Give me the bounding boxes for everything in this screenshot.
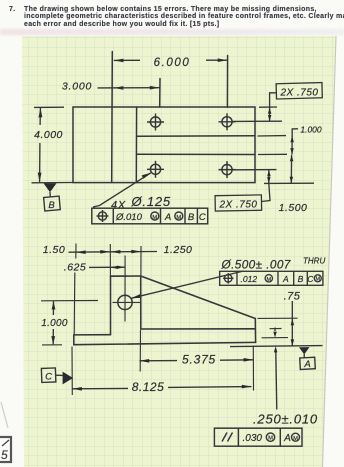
leader to hole label — [131, 271, 244, 298]
right end edge — [254, 319, 256, 343]
question text line 2 — [24, 13, 344, 20]
svg-text:B: B — [48, 200, 55, 211]
grade box bottom-left corner — [0, 402, 11, 462]
dimension 3.000 — [98, 86, 160, 90]
hole bottom-left — [147, 161, 164, 178]
hole (front view) — [118, 295, 132, 309]
svg-text:1.500: 1.500 — [279, 202, 308, 214]
extension line slope corner right — [258, 317, 298, 319]
extension line inner upper right — [258, 135, 287, 137]
dimension 1.50 — [43, 244, 110, 256]
step edge left foot — [74, 334, 111, 336]
inner vertical line 1 / extension line for 6.000 and 3.000 — [111, 52, 114, 183]
extension line hole row 2 right — [233, 169, 277, 171]
dimension .75 — [284, 291, 301, 347]
extension line mid right — [262, 337, 289, 339]
dimension 5.375 — [140, 353, 254, 367]
dimension 1.000 (right) — [290, 125, 322, 155]
svg-text:M: M — [152, 215, 157, 221]
svg-text:4.000: 4.000 — [34, 129, 63, 141]
svg-text:M: M — [316, 277, 321, 283]
dimension 4.000 — [32, 107, 73, 183]
svg-text:3.000: 3.000 — [62, 81, 92, 93]
dimension 6.000 — [114, 58, 228, 62]
svg-text:M: M — [176, 215, 181, 221]
left end edge — [73, 335, 75, 345]
hole top-left — [147, 114, 164, 131]
svg-text:1.000: 1.000 — [41, 318, 68, 329]
svg-text:1.250: 1.250 — [164, 244, 193, 256]
extension line bottom edge right (long) — [264, 182, 314, 184]
part outline rectangle (top view) — [73, 107, 255, 183]
inner horizontal line lower — [137, 153, 255, 155]
inner vertical line 2 — [135, 107, 137, 183]
extension line hole column 2 above part — [226, 56, 228, 108]
hole bottom-right — [219, 161, 236, 178]
question text line 1 — [9, 6, 15, 13]
dimension .625 — [64, 262, 125, 274]
wall right edge — [140, 276, 142, 329]
svg-text:THRU: THRU — [303, 257, 325, 266]
svg-text:1.50: 1.50 — [43, 244, 65, 256]
dimension 8.125 — [72, 380, 251, 394]
boxed dimension 2X .750 (bottom) — [215, 170, 271, 211]
datum B — [44, 183, 61, 211]
base top edge — [141, 328, 256, 330]
dimension 1.000 (left) — [41, 301, 68, 344]
bottom edge — [74, 342, 256, 344]
extension line for 1.000 top (left) — [41, 300, 98, 302]
feature control frame (top drawing) — [92, 208, 208, 224]
svg-text:5: 5 — [1, 448, 8, 462]
svg-text:2X .750: 2X .750 — [219, 200, 258, 211]
part outline (front view): wall top edge — [111, 275, 141, 277]
extension line hole row 1 right — [233, 120, 283, 122]
pink highlighter smear — [0, 29, 344, 35]
svg-text:B: B — [298, 274, 304, 284]
wall left edge — [110, 276, 112, 335]
datum C — [41, 368, 73, 384]
svg-text:C: C — [307, 274, 314, 284]
dimension .250 ± .010 arrows — [253, 328, 318, 427]
svg-text:A: A — [164, 212, 171, 223]
svg-text:.250±.010: .250±.010 — [253, 412, 318, 427]
svg-text:A: A — [303, 359, 310, 370]
extension line left end (below part, datum C) — [71, 347, 73, 396]
datum A — [299, 347, 315, 370]
svg-text:C: C — [45, 372, 52, 383]
leader 4X Ø.125 — [93, 173, 171, 212]
extension line right end (below part) — [252, 346, 254, 391]
feature control frame (parallelism, bottom right) — [214, 428, 302, 446]
svg-text:1.000: 1.000 — [300, 125, 322, 135]
question text line 3 — [24, 21, 219, 28]
svg-text:M: M — [293, 436, 298, 442]
feature control frame (hole) — [220, 271, 323, 285]
svg-text:Ø.125: Ø.125 — [131, 194, 171, 209]
extension line left end top (for 1.50) — [75, 244, 77, 259]
svg-text:.012: .012 — [241, 274, 258, 284]
svg-text:6.000: 6.000 — [154, 57, 191, 69]
inner horizontal line upper — [137, 135, 255, 138]
extension line bottom right (long) — [230, 346, 323, 347]
boxed dimension 2X .750 (top right) — [268, 83, 322, 122]
hole vertical centerline / extension — [124, 256, 126, 322]
extension line top edge right — [259, 106, 277, 108]
sloped rib edge — [141, 276, 256, 319]
svg-text:A: A — [282, 274, 289, 284]
svg-text:M: M — [268, 435, 273, 441]
hole horizontal centerline — [113, 301, 142, 303]
dimension 1.250 — [111, 244, 193, 256]
svg-text:A: A — [283, 433, 291, 444]
svg-text:Ø.500± .007: Ø.500± .007 — [221, 258, 291, 272]
svg-text:Ø.010: Ø.010 — [115, 212, 143, 223]
svg-text:M: M — [267, 277, 272, 283]
extension line base top right (short tick) — [270, 328, 282, 330]
svg-text:5.375: 5.375 — [182, 353, 216, 367]
svg-text:.75: .75 — [284, 291, 301, 303]
svg-text:C: C — [199, 212, 206, 223]
dimension 1.500 (right) — [279, 155, 308, 214]
extension line wall left top — [109, 244, 111, 276]
extension line wall-right below part (for 5.375) — [139, 330, 141, 372]
hole top-right — [219, 113, 236, 130]
extension line for 1.000 bottom (left) — [42, 344, 62, 346]
svg-text:.625: .625 — [64, 262, 86, 274]
svg-text:2X .750: 2X .750 — [280, 88, 319, 99]
extension line inner lower right — [258, 153, 287, 155]
svg-text:8.125: 8.125 — [132, 380, 165, 394]
extension line wall right top — [140, 246, 142, 276]
svg-text:B: B — [188, 212, 195, 223]
svg-text:.030: .030 — [243, 433, 263, 444]
extension line hole column 1 above part — [159, 79, 161, 108]
